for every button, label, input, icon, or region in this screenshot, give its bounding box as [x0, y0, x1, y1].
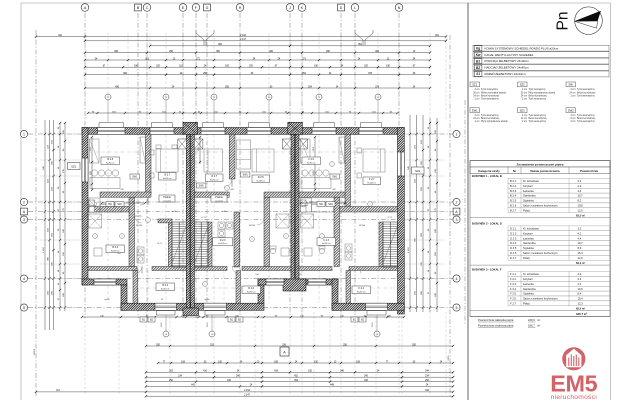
- svg-text:2 147: 2 147: [244, 395, 250, 397]
- svg-text:3,2: 3,2: [578, 227, 582, 231]
- svg-text:H=260 cm: H=260 cm: [322, 243, 331, 245]
- svg-text:B 2.3: B 2.3: [112, 246, 118, 249]
- svg-text:Powierzchnia: Powierzchnia: [580, 169, 598, 173]
- laundry label unit2: [211, 195, 227, 202]
- wall type SW2: [566, 108, 576, 113]
- bathroom unit2 shower: [276, 214, 289, 228]
- svg-text:Kw: Kw: [476, 53, 481, 57]
- svg-text:Nazwa pomieszczenia: Nazwa pomieszczenia: [530, 169, 560, 173]
- interior wall unit2 bottom divider: [236, 271, 241, 304]
- row marker 5 right: [453, 304, 460, 311]
- interior wall unit1 bottom divider: [133, 271, 138, 304]
- reference boxes below plan middle: [228, 317, 235, 322]
- svg-text:Powierzchnia użytkowa piętra: Powierzchnia użytkowa piętra: [478, 324, 514, 328]
- svg-text:2: 2: [252, 239, 253, 241]
- svg-text:F 2.6: F 2.6: [309, 158, 315, 161]
- party wall 1: [186, 134, 190, 308]
- legend row B2: [473, 65, 609, 71]
- horizontal grid axes: [28, 133, 453, 135]
- svg-text:24 cm: 24 cm: [473, 118, 479, 120]
- svg-text:15,4: 15,4: [578, 297, 584, 301]
- dimension line 962: [150, 45, 430, 47]
- interior mini dimension corridor unit3: [301, 202, 345, 204]
- legend row Kw: [473, 52, 609, 58]
- svg-text:2 162: 2 162: [240, 35, 246, 37]
- grid marker A: [81, 4, 89, 12]
- bathroom unit1 fixtures: [94, 248, 102, 256]
- room label B 2.6: [101, 157, 120, 165]
- svg-text:12 cm: 12 cm: [521, 118, 527, 120]
- svg-text:62,5 m²: 62,5 m²: [576, 213, 585, 217]
- party wall 2: [291, 134, 295, 287]
- interior wall unit3 bottom divider: [346, 271, 351, 304]
- svg-text:186,7 m²: 186,7 m²: [576, 312, 587, 316]
- svg-text:3,2: 3,2: [578, 272, 582, 276]
- svg-text:2 cm: 2 cm: [522, 115, 527, 117]
- svg-text:229,9: 229,9: [528, 318, 535, 322]
- svg-text:H=260 cm: H=260 cm: [106, 162, 115, 164]
- exterior wall recess vertical right: [332, 279, 338, 310]
- interior wall unit2 bath vertical: [234, 213, 240, 268]
- svg-text:F 2.3: F 2.3: [324, 239, 330, 242]
- right dimension cluster: [409, 115, 411, 312]
- interior mini dimension corridor unit1: [102, 202, 145, 204]
- svg-text:5: 5: [23, 306, 25, 310]
- svg-text:Beton komórkowy: Beton komórkowy: [577, 91, 596, 94]
- svg-text:F 2.7: F 2.7: [510, 302, 517, 306]
- interior wall unit1 corridor: [100, 192, 151, 197]
- svg-text:Kg: Kg: [476, 46, 480, 50]
- row marker 4 left: [20, 275, 27, 282]
- svg-text:Garderoba: Garderoba: [523, 287, 536, 291]
- row marker A right: [453, 208, 460, 215]
- interior wall unit1 room divider: [146, 134, 152, 194]
- grid marker H: [236, 4, 244, 12]
- svg-text:D 2.5: D 2.5: [258, 176, 264, 179]
- svg-text:Łazienka: Łazienka: [523, 236, 534, 240]
- svg-text:Płyty styropianowe twarde: Płyty styropianowe twarde: [481, 120, 508, 123]
- legend row S1: [473, 71, 609, 77]
- window bottom wall unit3: [366, 303, 388, 310]
- interior wall unit1 stair head: [158, 219, 172, 223]
- door arc unit2 bottom: [232, 267, 239, 274]
- svg-text:H=260 cm: H=260 cm: [256, 180, 265, 182]
- row marker 1 right: [453, 130, 460, 137]
- kitchen appliance boxes unit3: [301, 200, 307, 206]
- exterior wall recess vertical left: [258, 279, 264, 303]
- svg-text:SW1: SW1: [199, 186, 205, 188]
- svg-text:Tynk wewnętrzny: Tynk wewnętrzny: [577, 94, 595, 97]
- interior wall unit1 bath horizontal: [88, 207, 129, 213]
- svg-text:1 152: 1 152: [408, 246, 410, 252]
- svg-text:F 2.5: F 2.5: [510, 292, 517, 296]
- interior wall unit3 room divider: [345, 134, 351, 207]
- exterior wall top: [82, 128, 404, 135]
- row marker A left: [21, 208, 28, 215]
- svg-text:Pokój: Pokój: [523, 302, 530, 306]
- window axis marker bottom: [211, 309, 213, 331]
- svg-text:Tynk wewnętrzny: Tynk wewnętrzny: [577, 114, 595, 117]
- row marker 1 left: [20, 130, 27, 137]
- window sills top wall: [99, 123, 124, 128]
- svg-text:NADCIĄG ŻELBETOWY 24x40cm: NADCIĄG ŻELBETOWY 24x40cm: [485, 65, 530, 70]
- svg-text:2 cm: 2 cm: [475, 89, 480, 91]
- svg-text:(2050): (2050): [34, 349, 36, 356]
- wall tags SW SD2 unit3: [317, 202, 325, 207]
- wardrobe X unit2 at party wall 2: [283, 139, 292, 149]
- svg-text:20 cm: 20 cm: [473, 92, 479, 94]
- svg-text:SD1: SD1: [520, 108, 526, 112]
- svg-text:19,8: 19,8: [578, 204, 584, 208]
- svg-text:m²: m²: [537, 319, 540, 322]
- svg-text:SZ1: SZ1: [415, 169, 421, 173]
- svg-text:np/90: np/90: [171, 211, 177, 213]
- svg-text:BUDYNEK 1 - LOKAL B: BUDYNEK 1 - LOKAL B: [472, 174, 502, 178]
- svg-text:D 2.2: D 2.2: [510, 231, 517, 235]
- grid marker E: [179, 4, 187, 12]
- svg-text:SW: SW: [569, 83, 574, 87]
- window axis marker top: [268, 101, 270, 123]
- svg-text:Tynk wewnętrzny: Tynk wewnętrzny: [577, 88, 595, 91]
- wall type SZ1: [470, 82, 480, 87]
- svg-text:2: 2: [122, 236, 123, 238]
- svg-text:Salon z aneksem kuchennym: Salon z aneksem kuchennym: [523, 251, 558, 255]
- row marker 2 right: [453, 198, 460, 205]
- door arc unit1 bedroom: [140, 197, 148, 205]
- extension lines top: [84, 33, 86, 120]
- svg-text:Beton komórkowy: Beton komórkowy: [529, 117, 548, 120]
- room label D 2.4: [242, 286, 261, 294]
- svg-text:10,9: 10,9: [578, 287, 584, 291]
- svg-text:suszarnia: suszarnia: [163, 199, 172, 202]
- interior wall unit1 bath vertical: [129, 197, 135, 266]
- svg-text:SW1: SW1: [132, 177, 138, 179]
- svg-text:3: 3: [456, 218, 458, 222]
- window axis lines vertical rooms bottom: [147, 270, 149, 302]
- chimney block Kg unit2-3: [288, 122, 303, 134]
- svg-text:F 2.4: F 2.4: [510, 287, 517, 291]
- window axis marker top: [107, 101, 109, 123]
- interior wall unit3 bath vertical: [334, 197, 340, 266]
- staircase unit2: [194, 222, 208, 267]
- svg-text:B 2.6: B 2.6: [107, 158, 113, 161]
- wardrobe unit1: [140, 137, 146, 163]
- door arc unit1 bottom: [135, 267, 142, 274]
- svg-text:F 2.2: F 2.2: [510, 277, 517, 281]
- svg-text:2: 2: [205, 284, 206, 286]
- room schedule table: [470, 161, 610, 168]
- window axis marker bottom: [165, 309, 167, 331]
- svg-text:Sypialnia: Sypialnia: [523, 199, 534, 203]
- svg-text:H=260 cm: H=260 cm: [218, 243, 227, 245]
- page frame right border: [610, 3, 612, 400]
- window axis marker top: [213, 101, 215, 123]
- svg-text:SZ1: SZ1: [472, 83, 477, 87]
- dimension line 2 147: [85, 40, 446, 42]
- svg-text:2 cm: 2 cm: [571, 121, 576, 123]
- svg-text:2: 2: [456, 200, 458, 204]
- exterior wall step unit1 vertical: [121, 285, 127, 310]
- svg-text:B 2.3: B 2.3: [510, 189, 517, 193]
- interior wall unit2 bedroom1 bottom: [194, 192, 229, 197]
- washer column unit3: [345, 244, 352, 252]
- kitchen counter unit3: [301, 198, 312, 212]
- door arc unit2 left: [224, 179, 232, 187]
- dimension line 2 162: [85, 36, 446, 38]
- svg-text:Tynk wewnętrzny: Tynk wewnętrzny: [529, 114, 547, 117]
- bed unit2 right: [252, 149, 274, 172]
- bed unit1: [156, 149, 178, 172]
- legend row Kg: [473, 45, 609, 51]
- svg-text:H=260 cm: H=260 cm: [161, 288, 170, 290]
- extension lines bottom: [84, 312, 86, 395]
- window top wall unit2 bedroom1: [201, 128, 225, 135]
- bottom dimension chain b: [146, 371, 453, 373]
- svg-text:H=260 cm: H=260 cm: [367, 182, 376, 184]
- room label B 2.4: [156, 283, 175, 291]
- window dimension line above plan: [88, 112, 398, 114]
- axis line right margin: [449, 35, 451, 397]
- svg-text:Łazienka: Łazienka: [523, 189, 534, 193]
- svg-text:D 2.4: D 2.4: [248, 287, 254, 290]
- north arrow: [575, 7, 603, 35]
- window axis marker top: [318, 101, 320, 123]
- room label B 2.3: [106, 245, 125, 253]
- svg-text:SZ2: SZ2: [520, 83, 525, 87]
- svg-text:1 152: 1 152: [43, 246, 45, 252]
- window axis marker top: [165, 101, 167, 123]
- nightstands unit1: [150, 150, 155, 155]
- bathroom unit3 shower: [301, 214, 314, 228]
- window recess wall left: [266, 279, 284, 285]
- row marker 4 right: [453, 275, 460, 282]
- svg-text:D 2.7: D 2.7: [510, 256, 517, 260]
- svg-text:2 cm: 2 cm: [522, 121, 527, 123]
- svg-text:Pralnia: Pralnia: [163, 196, 171, 199]
- svg-text:Tynk zewnętrzny: Tynk zewnętrzny: [529, 88, 547, 91]
- svg-text:2 cm: 2 cm: [522, 99, 527, 101]
- interior mini dimension unit3: [314, 137, 316, 190]
- dimension chain level 8: [85, 87, 430, 89]
- svg-text:SZ1: SZ1: [71, 164, 77, 168]
- interior mini dimension unit2: [199, 137, 201, 164]
- svg-text:Tynk wewnętrzny: Tynk wewnętrzny: [577, 120, 595, 123]
- svg-text:B 2.5: B 2.5: [510, 199, 517, 203]
- svg-text:Kl. schodowa: Kl. schodowa: [523, 179, 539, 183]
- interior wall unit2 bedroom divider: [229, 134, 235, 179]
- axis line right inner: [464, 100, 466, 325]
- wall type label SZ1 left: [68, 163, 81, 170]
- svg-text:D 2.4: D 2.4: [510, 241, 517, 245]
- svg-text:m²: m²: [537, 325, 540, 328]
- bed unit3: [363, 149, 385, 172]
- bathroom unit2 fixture cluster: [218, 222, 225, 229]
- svg-text:np/90: np/90: [104, 299, 110, 301]
- exterior wall recess horizontal: [258, 279, 338, 285]
- svg-text:15,4: 15,4: [578, 251, 584, 255]
- bathroom unit2 fixtures: [281, 248, 289, 256]
- dining table unit3: [302, 170, 308, 176]
- interior wall unit2 bottom band: [194, 267, 227, 271]
- grid marker N: [395, 4, 403, 12]
- svg-text:KOMIN SYSTEMOWY SCHIEDEL RONDO: KOMIN SYSTEMOWY SCHIEDEL RONDO PLUS ø20c…: [485, 46, 559, 50]
- wall type SD1: [518, 108, 528, 113]
- svg-text:4: 4: [456, 277, 458, 281]
- staircase unit3: [383, 222, 398, 267]
- svg-text:B 2.1: B 2.1: [510, 179, 517, 183]
- wall type SW: [566, 82, 576, 87]
- row marker 3 right: [453, 216, 460, 223]
- dimension chain level 4: [85, 52, 430, 54]
- window recess wall right: [308, 279, 326, 285]
- svg-text:D 2.7: D 2.7: [211, 175, 217, 178]
- svg-text:H=260 cm: H=260 cm: [210, 179, 219, 181]
- cabinet unit2 bedroom2: [237, 140, 251, 169]
- bottom dimension total 2 147: [146, 395, 453, 397]
- svg-text:B2: B2: [476, 66, 480, 70]
- row marker 3 left: [20, 216, 27, 223]
- svg-text:4,2: 4,2: [578, 277, 582, 281]
- right extension lines: [402, 133, 445, 135]
- window top wall unit2 bedroom2: [247, 128, 271, 135]
- exterior wall right: [398, 128, 405, 311]
- svg-text:90/200: 90/200: [359, 225, 366, 227]
- svg-text:Tynk wewnętrzny: Tynk wewnętrzny: [481, 114, 499, 117]
- bottom dimension chain 250: [146, 345, 453, 347]
- wardrobe X unit2 at party wall 1: [194, 139, 203, 149]
- wall type SZ2: [518, 82, 528, 87]
- bottom dimension chain d: [146, 381, 453, 383]
- schedule table outer border: [470, 161, 610, 317]
- interior wall unit2 stair enclosure: [208, 222, 212, 267]
- svg-text:12,0: 12,0: [578, 256, 584, 260]
- svg-text:3,2: 3,2: [578, 179, 582, 183]
- svg-text:2: 2: [332, 164, 333, 166]
- room label F 2.6: [302, 157, 321, 165]
- wall type SW1: [470, 108, 480, 113]
- svg-text:B 2.4: B 2.4: [510, 194, 517, 198]
- svg-text:2050: 2050: [448, 355, 450, 361]
- svg-text:Wełna mineralna twarda: Wełna mineralna twarda: [481, 91, 506, 94]
- svg-text:D: D: [340, 6, 343, 10]
- room label F 2.4: [352, 286, 371, 294]
- svg-text:D 2.6: D 2.6: [510, 251, 517, 255]
- wardrobe unit3: [339, 137, 345, 163]
- sofa unit1: [90, 139, 100, 163]
- bottom dimension chain a: [158, 362, 453, 364]
- witness funnel right: [355, 30, 373, 45]
- svg-text:Beton komórkowy: Beton komórkowy: [481, 94, 500, 97]
- svg-text:S1: S1: [476, 72, 480, 76]
- bottom dimension chain e: [146, 385, 453, 387]
- svg-text:EM5: EM5: [550, 371, 597, 397]
- svg-text:10/20: 10/20: [207, 323, 209, 328]
- bed unit2 left: [204, 149, 223, 172]
- wall tag SW1 unit1: [130, 174, 140, 179]
- door arc unit2 bath: [257, 218, 264, 225]
- dimension chain level 6: [85, 66, 430, 68]
- dining table unit1: [91, 170, 97, 176]
- svg-text:2 162: 2 162: [244, 390, 250, 392]
- svg-text:F 2.4: F 2.4: [359, 287, 365, 290]
- svg-text:5: 5: [456, 306, 458, 310]
- svg-text:B 2.6: B 2.6: [510, 204, 517, 208]
- room label F 2.3: [317, 238, 336, 246]
- page frame top border: [21, 2, 611, 4]
- svg-text:N: N: [398, 6, 401, 10]
- svg-text:Tynk zewnętrzny: Tynk zewnętrzny: [481, 88, 499, 91]
- bathroom unit3 fixtures: [304, 248, 312, 256]
- room label B 2.7: [159, 173, 177, 181]
- svg-text:24 cm: 24 cm: [473, 95, 479, 97]
- svg-text:Sypialnia: Sypialnia: [523, 292, 534, 296]
- svg-text:H: H: [239, 6, 242, 10]
- svg-text:H=260 cm: H=260 cm: [163, 178, 172, 180]
- svg-text:D 2.3: D 2.3: [220, 239, 226, 242]
- svg-text:Beton komórkowy: Beton komórkowy: [577, 117, 596, 120]
- nightstands unit3: [357, 148, 362, 153]
- svg-text:Powierzchnia całkowita piętra: Powierzchnia całkowita piętra: [478, 318, 514, 322]
- svg-text:SW1: SW1: [472, 108, 478, 112]
- exterior wall bottom A: [121, 303, 264, 310]
- window left wall: [82, 158, 88, 182]
- svg-text:PODCIĄG ŻELBETOWY 24x40cm: PODCIĄG ŻELBETOWY 24x40cm: [485, 58, 530, 63]
- party wall 2 foot: [283, 279, 306, 291]
- wardrobe X unit3 at party wall 2: [299, 139, 308, 149]
- reference boxes below plan right: [351, 317, 358, 322]
- window sills bottom wall: [157, 311, 176, 315]
- staircase unit1: [172, 222, 186, 267]
- door arc unit3 room: [339, 204, 347, 212]
- svg-text:20 cm: 20 cm: [521, 92, 527, 94]
- svg-text:62,0 m²: 62,0 m²: [576, 261, 585, 265]
- chimney block Kg unit1-2: [183, 122, 198, 134]
- svg-text:Kategoria strefy: Kategoria strefy: [478, 169, 500, 173]
- svg-text:SD2: SD2: [328, 204, 333, 206]
- window bottom wall unit2: [204, 303, 227, 310]
- svg-text:RDZEŃ ŻELBETOWY 24x24cm: RDZEŃ ŻELBETOWY 24x24cm: [485, 71, 527, 76]
- vertical grid axes: [84, 13, 86, 318]
- window top wall unit1 bedroom: [150, 128, 174, 135]
- washer column unit1: [137, 247, 144, 255]
- svg-text:4,2: 4,2: [578, 282, 582, 286]
- svg-text:np/90: np/90: [204, 299, 210, 301]
- svg-text:90/200: 90/200: [249, 225, 256, 227]
- svg-text:4,4: 4,4: [578, 189, 582, 193]
- svg-text:2: 2: [370, 204, 371, 206]
- svg-text:Pn: Pn: [555, 12, 572, 31]
- svg-text:B 2.7: B 2.7: [164, 174, 170, 177]
- svg-text:suszarnia: suszarnia: [215, 199, 224, 202]
- interior wall unit2 corridor right: [264, 192, 291, 197]
- svg-text:10/20: 10/20: [372, 323, 374, 328]
- EM5 logo circle: [562, 347, 585, 370]
- kitchen counter unit1: [89, 198, 100, 212]
- svg-text:2: 2: [95, 236, 96, 238]
- interior wall unit3 bottom band: [299, 267, 332, 271]
- wardrobe X unit1 at party wall 1: [178, 139, 187, 149]
- svg-text:2: 2: [23, 200, 25, 204]
- room schedule header: [470, 167, 610, 174]
- svg-text:B1: B1: [476, 59, 480, 63]
- svg-text:SW1: SW1: [332, 177, 338, 179]
- bottom dimension total 2 162: [36, 391, 453, 393]
- svg-text:12,3: 12,3: [578, 302, 584, 306]
- svg-text:Łazienka: Łazienka: [523, 282, 534, 286]
- svg-text:10,7: 10,7: [578, 194, 584, 198]
- grid marker G: [204, 4, 211, 11]
- svg-text:62,4 m²: 62,4 m²: [576, 306, 585, 310]
